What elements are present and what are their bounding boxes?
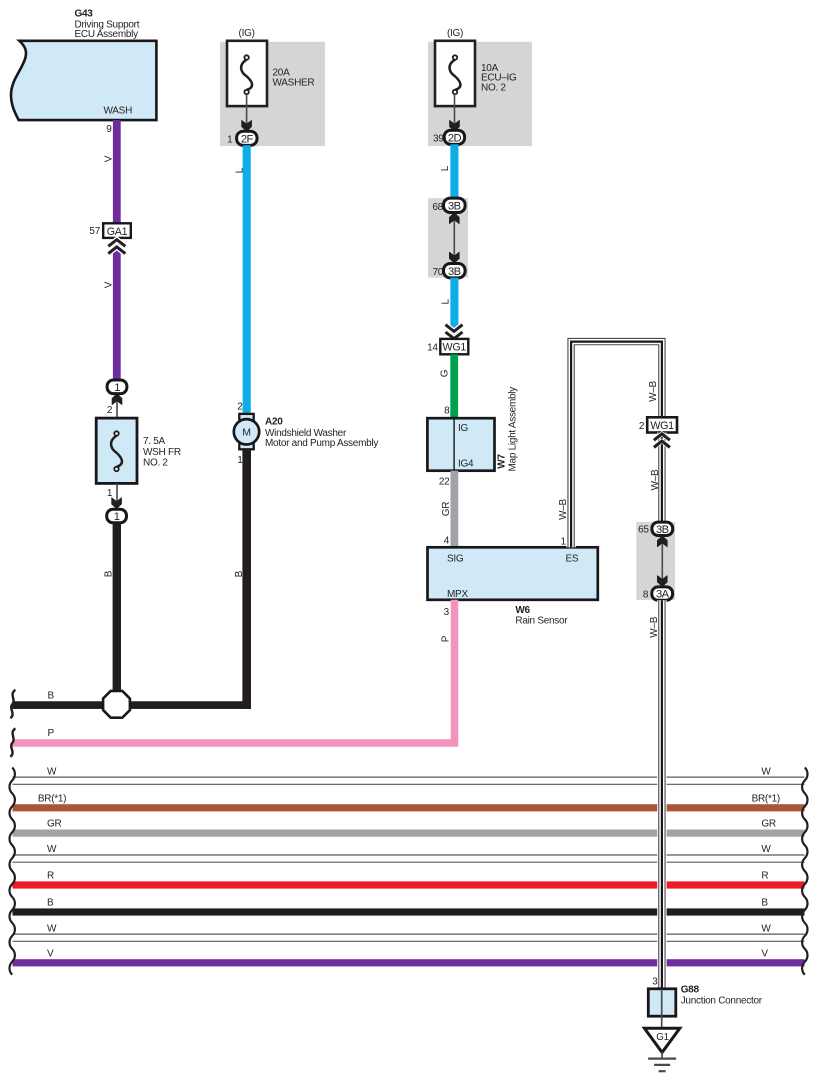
svg-text:B: B xyxy=(103,570,114,577)
svg-text:BR(*1): BR(*1) xyxy=(38,793,66,804)
ground triangle G1 xyxy=(644,1028,679,1058)
wire color label W-B below 3A xyxy=(649,616,660,637)
svg-text:SIG: SIG xyxy=(447,554,464,565)
connector oval 1 upper xyxy=(107,380,127,394)
svg-text:GA1: GA1 xyxy=(107,226,128,238)
connector oval 1 lower xyxy=(107,509,127,523)
arrows between 3B and 3A xyxy=(657,536,667,587)
junction octagon on ground bus xyxy=(103,691,130,718)
svg-text:W–B: W–B xyxy=(558,498,569,519)
arrow down from fuse to 2D xyxy=(450,94,460,131)
svg-text:1: 1 xyxy=(114,511,120,523)
svg-text:3: 3 xyxy=(444,607,450,618)
bus wire B right label xyxy=(761,898,768,909)
pin 1 of W6 xyxy=(561,536,567,547)
arrows between 3B and 3B xyxy=(449,213,459,263)
fuse 20A WASHER symbol box xyxy=(227,41,267,106)
svg-text:2: 2 xyxy=(639,421,645,432)
svg-text:G88: G88 xyxy=(681,985,700,996)
wire color label G xyxy=(440,369,451,377)
svg-text:3B: 3B xyxy=(656,524,669,536)
bus wire V right label xyxy=(761,948,768,959)
arrow down into oval 1 with lead line xyxy=(112,483,122,508)
fuse 10A ECU-IG NO.2 symbol box xyxy=(435,41,475,106)
bus wire W left label xyxy=(47,844,57,855)
svg-text:IG4: IG4 xyxy=(458,458,474,469)
svg-text:WASHER: WASHER xyxy=(273,78,315,89)
svg-text:1: 1 xyxy=(227,134,233,145)
svg-text:2: 2 xyxy=(107,405,113,416)
connector W7 Map Light Assembly box xyxy=(427,418,494,471)
bus wire GR horizontal xyxy=(13,830,805,837)
svg-text:3: 3 xyxy=(652,976,658,987)
connector GA1 pin 57 box xyxy=(89,223,130,238)
bus wire B left label xyxy=(47,898,54,909)
svg-text:MPX: MPX xyxy=(447,589,468,600)
bus wire R left label xyxy=(47,871,54,882)
pin 2 of A20 xyxy=(237,402,243,413)
wire color label L xyxy=(235,167,246,173)
svg-text:NO. 2: NO. 2 xyxy=(143,458,168,469)
svg-text:14: 14 xyxy=(427,343,438,354)
bus wire W right label xyxy=(761,766,771,777)
connector block grey 3B xyxy=(428,198,468,277)
connector block grey 3B-3A xyxy=(636,522,675,600)
ground bus wire B horizontal xyxy=(13,701,252,709)
fuse label 10A ECU-IG NO.2 xyxy=(481,63,517,94)
connector oval 2D xyxy=(433,130,465,144)
svg-text:W: W xyxy=(47,923,57,934)
svg-text:8: 8 xyxy=(643,589,649,600)
svg-text:Junction Connector: Junction Connector xyxy=(681,996,763,1007)
label G88 Junction Connector xyxy=(681,985,763,1007)
bus wire B horizontal xyxy=(13,908,805,915)
connector oval 3A pin 8 xyxy=(643,587,673,601)
wire V from GA1 to junction 1 xyxy=(113,244,121,381)
label G43 xyxy=(75,9,140,41)
pin label WASH xyxy=(104,106,133,117)
connector W6 Rain Sensor box xyxy=(428,547,598,600)
wire color label GR xyxy=(441,502,452,516)
pin 1 of A20 xyxy=(237,455,243,466)
svg-text:ES: ES xyxy=(566,554,579,565)
svg-text:7. 5A: 7. 5A xyxy=(143,436,166,447)
wire L from 2D to 3B xyxy=(450,144,458,199)
wire GR from W7 to W6 xyxy=(451,471,459,548)
svg-text:BR(*1): BR(*1) xyxy=(752,793,780,804)
bus wire W horizontal xyxy=(13,934,805,941)
svg-text:Motor and Pump Assembly: Motor and Pump Assembly xyxy=(265,438,378,449)
svg-text:WSH FR: WSH FR xyxy=(143,447,181,458)
svg-text:NO. 2: NO. 2 xyxy=(481,83,506,94)
pin 4 of W6 xyxy=(444,536,450,547)
svg-text:W7: W7 xyxy=(497,454,508,469)
relay block grey box 20A WASHER xyxy=(220,42,325,146)
svg-text:3B: 3B xyxy=(448,266,461,278)
svg-text:(IG): (IG) xyxy=(447,28,463,39)
wire B from A20 to ground bus xyxy=(242,449,251,709)
bus wire GR left label xyxy=(47,819,61,830)
svg-text:G1: G1 xyxy=(656,1032,669,1043)
svg-text:Rain Sensor: Rain Sensor xyxy=(515,616,568,627)
wire L from 2F to washer motor xyxy=(243,145,251,414)
break squiggle at left of B bus xyxy=(10,690,15,718)
wire color label V xyxy=(103,155,114,162)
wire B from oval 1 to ground junction xyxy=(113,522,121,709)
svg-text:GR: GR xyxy=(47,819,61,830)
svg-text:W–B: W–B xyxy=(649,616,660,637)
wire color label W-B at ES leg xyxy=(558,498,569,519)
label A20 Windshield Washer Motor and Pump Assembly xyxy=(265,416,378,448)
connector WG1 pin 2 box xyxy=(639,417,677,432)
svg-text:L: L xyxy=(440,298,451,304)
svg-text:1: 1 xyxy=(561,536,567,547)
bus wire V left label xyxy=(47,948,54,959)
svg-text:B: B xyxy=(48,691,55,702)
svg-text:B: B xyxy=(761,898,768,909)
svg-text:M: M xyxy=(242,427,250,439)
svg-text:57: 57 xyxy=(89,226,100,237)
svg-text:Map Light Assembly: Map Light Assembly xyxy=(508,387,519,472)
wire color label B xyxy=(103,570,114,577)
bus wire W left label xyxy=(47,766,57,777)
pin 22 of W7 xyxy=(439,476,450,487)
label (IG) washer fuse xyxy=(239,28,255,39)
relay block grey box ECU-IG xyxy=(428,42,532,146)
wire V from G43 pin 9 to GA1 xyxy=(113,120,121,224)
fuse 7.5A WSH FR NO.2 box xyxy=(96,418,137,483)
svg-text:W: W xyxy=(47,844,57,855)
fuse label 7.5A WSH FR NO.2 xyxy=(143,436,181,469)
svg-text:4: 4 xyxy=(444,536,450,547)
svg-text:V: V xyxy=(103,281,114,288)
fuse label 20A WASHER xyxy=(273,68,315,89)
wire color label P horizontal xyxy=(48,728,55,739)
svg-text:W: W xyxy=(761,844,771,855)
svg-text:9: 9 xyxy=(106,124,112,135)
bus wire W right label xyxy=(761,923,771,934)
svg-text:W: W xyxy=(761,766,771,777)
bus wire BR(*1) left label xyxy=(38,793,66,804)
bus wire GR right label xyxy=(761,819,775,830)
wire color label B xyxy=(234,570,245,577)
svg-text:22: 22 xyxy=(439,476,450,487)
connector oval 3B pin 70 xyxy=(433,264,466,278)
label (IG) ecu-ig fuse xyxy=(447,28,463,39)
bus wire W left label xyxy=(47,923,57,934)
svg-text:8: 8 xyxy=(444,405,450,416)
connector oval 3B pin 65 xyxy=(638,522,673,536)
svg-text:GR: GR xyxy=(441,502,452,516)
svg-text:(IG): (IG) xyxy=(239,28,255,39)
bus wire R horizontal xyxy=(13,881,805,888)
break squiggle at left of P bus xyxy=(10,728,15,756)
pin 8 of W7 xyxy=(444,405,450,416)
svg-text:WG1: WG1 xyxy=(650,420,674,432)
chevron arrows into WG1 xyxy=(446,325,463,339)
svg-text:A20: A20 xyxy=(265,416,283,427)
svg-text:39: 39 xyxy=(433,134,444,145)
svg-text:ECU Assembly: ECU Assembly xyxy=(75,29,139,40)
svg-text:1: 1 xyxy=(114,382,120,394)
svg-text:W–B: W–B xyxy=(650,469,661,490)
svg-text:W6: W6 xyxy=(515,605,530,616)
wire color label W-B above WG1 xyxy=(648,380,659,401)
svg-text:G43: G43 xyxy=(75,9,94,20)
svg-text:3A: 3A xyxy=(656,589,670,601)
svg-text:3B: 3B xyxy=(448,200,461,212)
bus wire W right label xyxy=(761,844,771,855)
chevron arrows at WG1 pin 2 xyxy=(654,434,670,448)
connector WG1 pin 14 box xyxy=(427,339,468,354)
wire G from WG1 to W7 pin 8 xyxy=(450,354,458,419)
pin 3 of W6 xyxy=(444,607,450,618)
wire L from 3B to WG1 xyxy=(450,278,458,335)
connector oval 3B pin 68 xyxy=(432,198,465,213)
svg-text:IG: IG xyxy=(458,423,468,434)
chevron arrows at GA1 xyxy=(108,240,125,254)
break squiggle left of bus block xyxy=(10,768,15,975)
svg-text:V: V xyxy=(761,948,768,959)
svg-text:R: R xyxy=(47,871,54,882)
label W7 Map Light Assembly xyxy=(497,387,519,472)
break squiggle right of bus block xyxy=(802,768,807,975)
svg-text:V: V xyxy=(103,155,114,162)
svg-text:B: B xyxy=(47,898,54,909)
bus wire V horizontal xyxy=(13,959,805,966)
svg-text:1: 1 xyxy=(107,488,113,499)
wire W-B from 3A to G88 xyxy=(657,600,666,989)
motor A20 washer motor symbol xyxy=(234,414,259,449)
pin 2 of fuse WSH FR xyxy=(107,405,113,416)
ground bus label B xyxy=(48,691,55,702)
wire color label L xyxy=(440,298,451,304)
pin 9 of G43 xyxy=(106,124,112,135)
svg-text:2: 2 xyxy=(237,402,243,413)
bus wire BR(*1) horizontal xyxy=(13,804,805,811)
svg-text:65: 65 xyxy=(638,525,649,536)
svg-text:W–B: W–B xyxy=(648,380,659,401)
svg-text:V: V xyxy=(47,948,54,959)
svg-text:R: R xyxy=(761,871,768,882)
wire color label V xyxy=(103,281,114,288)
bus wire W horizontal xyxy=(13,855,805,862)
bus wire W horizontal xyxy=(13,777,805,784)
label W6 Rain Sensor xyxy=(515,605,568,627)
arrow down from fuse to 2F xyxy=(242,94,252,131)
ground symbol bars xyxy=(648,1059,676,1072)
wire color label L xyxy=(440,165,451,171)
svg-text:2D: 2D xyxy=(448,132,462,144)
svg-text:2F: 2F xyxy=(241,133,254,145)
pin 3 of G88 xyxy=(652,976,658,987)
wire W-B from W6 ES up over to WG1 xyxy=(571,342,662,548)
svg-text:W: W xyxy=(47,766,57,777)
connector G88 Junction Connector box xyxy=(648,989,676,1028)
wire P from W6 pin 3 to left edge xyxy=(13,600,455,743)
bus wire BR(*1) right label xyxy=(752,793,780,804)
svg-text:GR: GR xyxy=(761,819,775,830)
pin 1 of fuse WSH FR xyxy=(107,488,113,499)
svg-text:B: B xyxy=(234,570,245,577)
svg-text:P: P xyxy=(48,728,55,739)
svg-text:W: W xyxy=(761,923,771,934)
svg-text:L: L xyxy=(235,167,246,173)
svg-text:WG1: WG1 xyxy=(443,342,467,354)
wire color label W-B below WG1 xyxy=(650,469,661,490)
ECU G43 Driving Support ECU Assembly box xyxy=(11,41,156,120)
wire color label P vertical xyxy=(440,635,451,642)
arrow up into oval 1 with lead line xyxy=(112,394,122,419)
svg-text:P: P xyxy=(440,635,451,642)
svg-text:G: G xyxy=(440,369,451,377)
bus wire R right label xyxy=(761,871,768,882)
svg-text:L: L xyxy=(440,165,451,171)
svg-text:WASH: WASH xyxy=(104,106,133,117)
wire W-B from WG1 to 3B xyxy=(657,433,666,523)
connector oval 2F xyxy=(227,131,257,145)
svg-text:68: 68 xyxy=(432,202,443,213)
